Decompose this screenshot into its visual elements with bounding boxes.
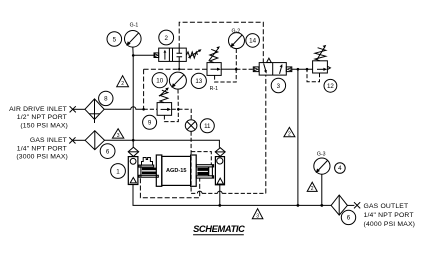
svg-text:10: 10 [156,78,163,85]
pilot line: gauge drop to regulator 9 outlet [177,89,179,109]
regulator R-1 [207,63,221,93]
svg-text:6: 6 [347,215,351,222]
pilot line: up to valve 3 bottom port [265,75,267,193]
pilot rail: horizontal left portion [144,68,207,70]
port X: GAS INLET [69,137,75,143]
node: G-3 outlet junction [320,204,323,207]
wire: junction to valve 2 pilot [133,54,154,56]
pilot sensing loop of regulator 12 [307,69,320,82]
regulator 9 (air drive regulator) [157,103,172,116]
balloon 6 (outlet check) [341,210,355,224]
valve 2 (pilot operated 3/2 air valve) [154,48,186,61]
wire: gas inlet line across pump with hop over pilot line [105,140,220,148]
wire: stub down to left suction check [132,140,134,147]
wire: filter to regulator junction with hop over vertical [104,107,143,110]
pump: left lower plate [139,175,158,177]
gauge G-1 [125,23,142,47]
vent valve 11 (circle with X) [185,120,197,132]
pilot sensing loop of R-1 [215,69,237,82]
svg-text:GAS OUTLET: GAS OUTLET [364,203,409,210]
pump: right end cap [191,155,197,186]
spring of R-1 [209,46,220,62]
spring of valve 2 [186,49,201,58]
svg-text:4: 4 [338,165,342,172]
svg-text:(150 PSI MAX): (150 PSI MAX) [20,122,68,129]
pump: right check tower [215,157,224,185]
pump: left end cap [156,155,162,186]
svg-text:G-3: G-3 [317,152,326,158]
regulator 12 (back pressure regulator) [313,61,331,73]
pilot line: through regulator 9 [144,108,179,110]
svg-text:13: 13 [195,78,202,85]
balloon 10 [152,73,167,88]
warning triangle 2 (air section) [117,76,129,88]
balloon 1 (pump) [111,164,126,179]
pilot rail: left leg down to regulator 9 [143,69,145,109]
svg-text:GAS INLET: GAS INLET [30,137,67,144]
pump: cylinder body AGD-15 [162,156,191,185]
pump: left C bracket [140,165,142,177]
port X: GAS OUTLET [354,202,360,208]
check valve 6 (gas inlet) [85,131,104,150]
svg-text:2: 2 [311,186,314,192]
svg-text:3: 3 [256,213,259,219]
svg-text:9: 9 [148,120,152,127]
node: junction gas line / left check tower [132,139,135,142]
label: gas outlet [364,203,416,228]
pilot sensing loop of regulator 9 [164,109,178,121]
balloon 3 [271,78,285,92]
pump: right piston rod bars [197,168,208,171]
pump: right suction check diamond [215,148,225,157]
svg-text:1/2" NPT PORT: 1/2" NPT PORT [17,114,67,121]
node: junction R-1 / G-2 [235,68,238,71]
svg-text:R-1: R-1 [210,86,218,92]
gauge G-2 [229,28,245,48]
pump: right C bracket [211,165,213,178]
pump: right upper plate [196,165,213,167]
svg-text:(4000 PSI MAX): (4000 PSI MAX) [364,221,416,228]
port X: AIR DRIVE INLET [70,106,76,112]
node: junction main drop [297,68,300,71]
label: SCHEMATIC title [193,224,245,235]
svg-text:3: 3 [277,83,281,90]
node: junction regulator 12 sensing [306,68,309,71]
pump: left piston rod bars [142,168,157,171]
node: right tower outlet junction [218,204,221,207]
svg-text:2: 2 [121,81,124,87]
pilot line: regulator 9 outlet to vent valve 11 [178,109,191,120]
pump AGD-15: left suction check diamond [128,147,139,156]
svg-text:2: 2 [164,35,168,42]
node: junction at gauge G-1 [132,54,135,57]
pump: right lower plate [196,176,213,178]
node: regulator 9 inlet junction [142,108,145,111]
label: gas inlet [16,137,68,161]
wire: right tower drop [219,185,221,206]
wire: gas inlet port to check valve [72,139,85,141]
svg-text:8: 8 [104,96,108,103]
pump: left upper plate [139,165,154,167]
balloon 4 [335,163,346,174]
node: regulator 9 outlet junction [177,108,180,111]
pilot line: junction to valve 3 pilot [236,68,253,70]
balloon 13 [191,73,206,88]
wire: R-1 outlet to junction [221,68,236,70]
gauge (regulator 9 outlet gauge) [169,72,186,89]
check valve 6 (gas outlet) [331,195,347,215]
wire: left tower drop to outlet line [133,185,331,206]
svg-text:14: 14 [249,38,256,45]
wire: valve 2 bottom port to pilot rail [178,61,180,69]
spring of regulator 9 [159,88,169,103]
svg-text:5: 5 [113,36,117,43]
warning triangle 2 (near main drop) [284,127,295,137]
svg-text:2: 2 [288,131,291,137]
warning triangle 3 (gas inlet) [112,129,123,139]
wire: air inlet port to filter [73,108,85,110]
spring of regulator 12 [315,45,326,61]
svg-text:AIR DRIVE INLET: AIR DRIVE INLET [9,106,67,113]
balloon 8 [99,91,113,105]
pilot box outline right pilot valve [191,152,211,165]
svg-text:11: 11 [204,123,211,130]
svg-text:3: 3 [117,133,120,139]
pilot line: left end cap drive loop [140,178,199,198]
label: air drive inlet [9,106,68,130]
pilot line: vent valve down with hop over gas line [190,132,192,194]
wire: main vertical drop to outlet line [297,69,299,205]
svg-text:1: 1 [116,168,120,175]
svg-text:1/4" NPT PORT: 1/4" NPT PORT [17,145,67,152]
svg-text:1/4" NPT PORT: 1/4" NPT PORT [364,212,414,219]
wire: vertical main from junction down to gas inlet line [132,55,134,140]
balloon 11 [200,119,214,133]
balloon 14 [246,34,260,48]
gauge G-3 [314,152,330,175]
node: main drop outlet junction [297,204,300,207]
svg-text:12: 12 [327,83,334,90]
pilot line: valve 2 top to top dashed run to valve 3 [179,22,263,62]
valve 3 (pilot operated cycling valve) [253,58,291,75]
hop over right end pilot drop [197,191,202,193]
node: valve2 drop junction [178,68,180,70]
balloon 9 [143,115,157,129]
svg-text:6: 6 [106,148,110,155]
wire: G-1 gauge drop to junction [132,47,134,55]
pilot line: gauge G-2 drop [235,49,237,69]
svg-text:AGD-15: AGD-15 [166,168,187,174]
warning triangle 3 (below outlet line) [252,209,263,220]
balloon 12 [324,79,337,92]
warning triangle 2 (outlet) [307,182,317,192]
pilot line: valve 3 run under pump with hops [191,192,266,194]
pump: right rod end bar [208,167,210,176]
filter 8 (air drive inlet filter) [85,99,104,123]
svg-text:G-1: G-1 [130,23,139,29]
hop over right tower drop [218,191,223,193]
balloon 6 (inlet check) [100,144,115,159]
balloon 2 [159,30,174,45]
pump: left check tower [128,157,138,185]
wire: outlet check to port [347,204,354,206]
pump: left pilot bracket [142,158,153,166]
svg-text:(3000 PSI MAX): (3000 PSI MAX) [16,154,68,161]
svg-text:SCHEMATIC: SCHEMATIC [193,224,245,234]
balloon 5 [107,32,122,47]
wire: valve 3 to regulator 12 [292,68,313,70]
wire: G-3 drop to outlet line [321,174,323,205]
